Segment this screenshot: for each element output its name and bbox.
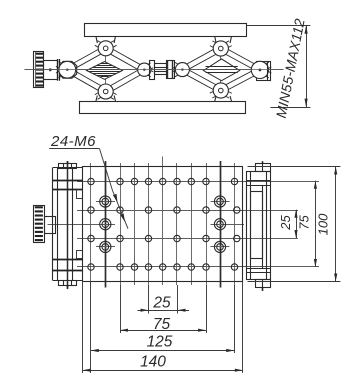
right scissor bottom pivot: [213, 83, 228, 98]
dim line 125 (bottom): [91, 350, 234, 352]
big hole local centerlines: [96, 201, 115, 203]
left scissor bottom pivot: [98, 84, 113, 99]
knob knurling stripes: [36, 53, 43, 55]
left scissor screw axis: [105, 51, 107, 90]
left assembly rails: [52, 168, 54, 281]
wire - horizontal centerline of side view: [25, 69, 284, 71]
right scissor drive block (lens): [203, 59, 239, 81]
coupler shaft bars: [155, 64, 167, 68]
dim ext bottom edge: [248, 281, 341, 283]
right scissor arms: [175, 46, 232, 77]
dim line 75 (right): [315, 181, 317, 267]
dim line height: [306, 25, 308, 107]
svg-text:100: 100: [316, 213, 331, 235]
coupler right plates: [167, 61, 175, 79]
left plate notches: [77, 190, 83, 199]
svg-text:75: 75: [153, 316, 171, 333]
left assembly cross bands: [53, 180, 82, 182]
svg-text:125: 125: [147, 334, 173, 351]
svg-text:25: 25: [152, 295, 171, 312]
dim extension lines (height): [247, 25, 310, 27]
coupler left plate: [150, 61, 155, 80]
hub flange (double line): [57, 59, 59, 81]
knob (plan view): [34, 206, 45, 243]
dim line 25 (bottom): [138, 310, 190, 312]
centerline overlay: [25, 69, 284, 71]
left scissor hub housing: [60, 61, 77, 78]
svg-text:140: 140: [140, 354, 166, 371]
right top bracket: [215, 36, 232, 43]
left bottom tab: [59, 281, 77, 286]
right bottom tab: [256, 280, 271, 288]
svg-text:24-M6: 24-M6: [50, 133, 96, 150]
svg-text:MIN55-MAX112: MIN55-MAX112: [273, 17, 308, 119]
left top tab: [59, 164, 77, 169]
left scissor arms: [59, 45, 117, 77]
right end bracket: [257, 62, 271, 81]
dim line 75 (bottom): [120, 330, 206, 332]
hole column centerlines: [90, 163, 92, 285]
right bracket (plan): [247, 172, 271, 280]
dim line 140 (bottom): [83, 370, 243, 372]
top platform plate (side view): [85, 24, 247, 37]
left scissor hub pivot: [59, 61, 76, 78]
right top tab: [256, 164, 271, 172]
right end pivot: [251, 61, 268, 78]
left top bracket: [96, 36, 116, 43]
dim ext lines bottom: [82, 282, 84, 374]
dim line 100 (right): [335, 167, 337, 282]
left scissor top pivot: [98, 41, 113, 56]
M6 holes rows 2 and 3: [88, 207, 94, 213]
lead screw / post holes: [100, 196, 111, 207]
svg-text:75: 75: [297, 215, 312, 230]
knob shaft (plan): [45, 217, 56, 234]
knob hub block: [44, 61, 58, 80]
dim line 25 (right): [296, 210, 298, 238]
leader line 24-M6: [100, 149, 129, 229]
right scissor screw axis: [220, 51, 222, 89]
left bottom bracket: [96, 96, 116, 102]
top platform plate (plan view): [83, 167, 243, 282]
knob knurling (plan): [35, 206, 43, 208]
right scissor top pivot: [213, 41, 228, 56]
left scissor right pivot: [138, 63, 151, 76]
base plate (side view): [80, 102, 246, 114]
hole row centerlines: [77, 181, 319, 183]
adjustment knob (side view): [34, 52, 44, 88]
svg-text:25: 25: [278, 215, 293, 231]
lead screw centerlines (thick): [105, 161, 107, 288]
dim ext top edge: [248, 166, 341, 168]
left scissor drive block (lens): [87, 62, 123, 80]
M6 holes rows 1 and 4: [88, 178, 94, 184]
right scissor left pivot: [175, 63, 189, 77]
right bottom bracket: [215, 96, 232, 101]
